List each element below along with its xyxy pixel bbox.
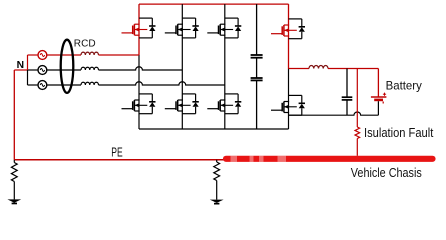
- svg-text:Battery: Battery: [386, 78, 423, 92]
- svg-text:PE: PE: [111, 145, 122, 159]
- svg-text:Isulation Fault: Isulation Fault: [364, 126, 434, 140]
- svg-text:N: N: [17, 60, 24, 71]
- svg-text:RCD: RCD: [74, 38, 96, 50]
- svg-text:Vehicle Chasis: Vehicle Chasis: [351, 166, 422, 180]
